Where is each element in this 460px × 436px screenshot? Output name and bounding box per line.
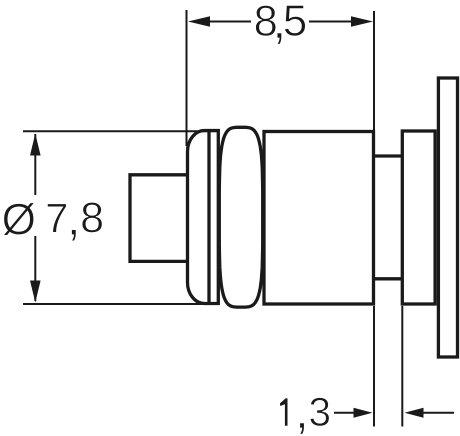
front washer disc A [188,131,219,304]
mounting flange plate [438,78,457,357]
dim 1,3 right arrowhead [405,408,424,418]
dim 1,3 right extension line [401,306,403,427]
dim 7,8 down arrowhead [30,281,41,303]
label diameter 7,8 [3,203,34,236]
dim 8,5 left arrowhead [188,16,210,27]
neck groove top line [375,154,401,157]
main cylinder body [264,132,374,305]
dim 8,5 right extension line [373,11,375,131]
dim 7,8 up arrowhead [30,134,41,156]
dim 8,5 right arrowhead [351,16,373,27]
dim 8,5 left extension line [186,10,188,146]
washer disc A inner edge line [207,132,210,303]
dim 8,5 dimension line left segment [206,21,251,23]
sealing ring barrel B [219,127,262,307]
neck groove bottom line [375,277,401,280]
pin shaft left rectangle [130,175,187,262]
dim 7,8 dimension line upper segment [34,134,36,195]
dim 1,3 left extension line [373,306,375,427]
label 8,5 [256,5,276,36]
dim 1,3 left tail line [334,412,355,414]
dim 7,8 top extension line [23,130,218,132]
dim 7,8 bottom extension line [23,303,218,305]
label 1,3 [280,398,288,425]
dim 1,3 right tail line [422,412,454,414]
hex nut disc [402,131,435,304]
dim 8,5 dimension line right segment [309,21,353,23]
dim 7,8 dimension line lower segment [34,236,36,301]
dim 1,3 left arrowhead [354,408,373,418]
